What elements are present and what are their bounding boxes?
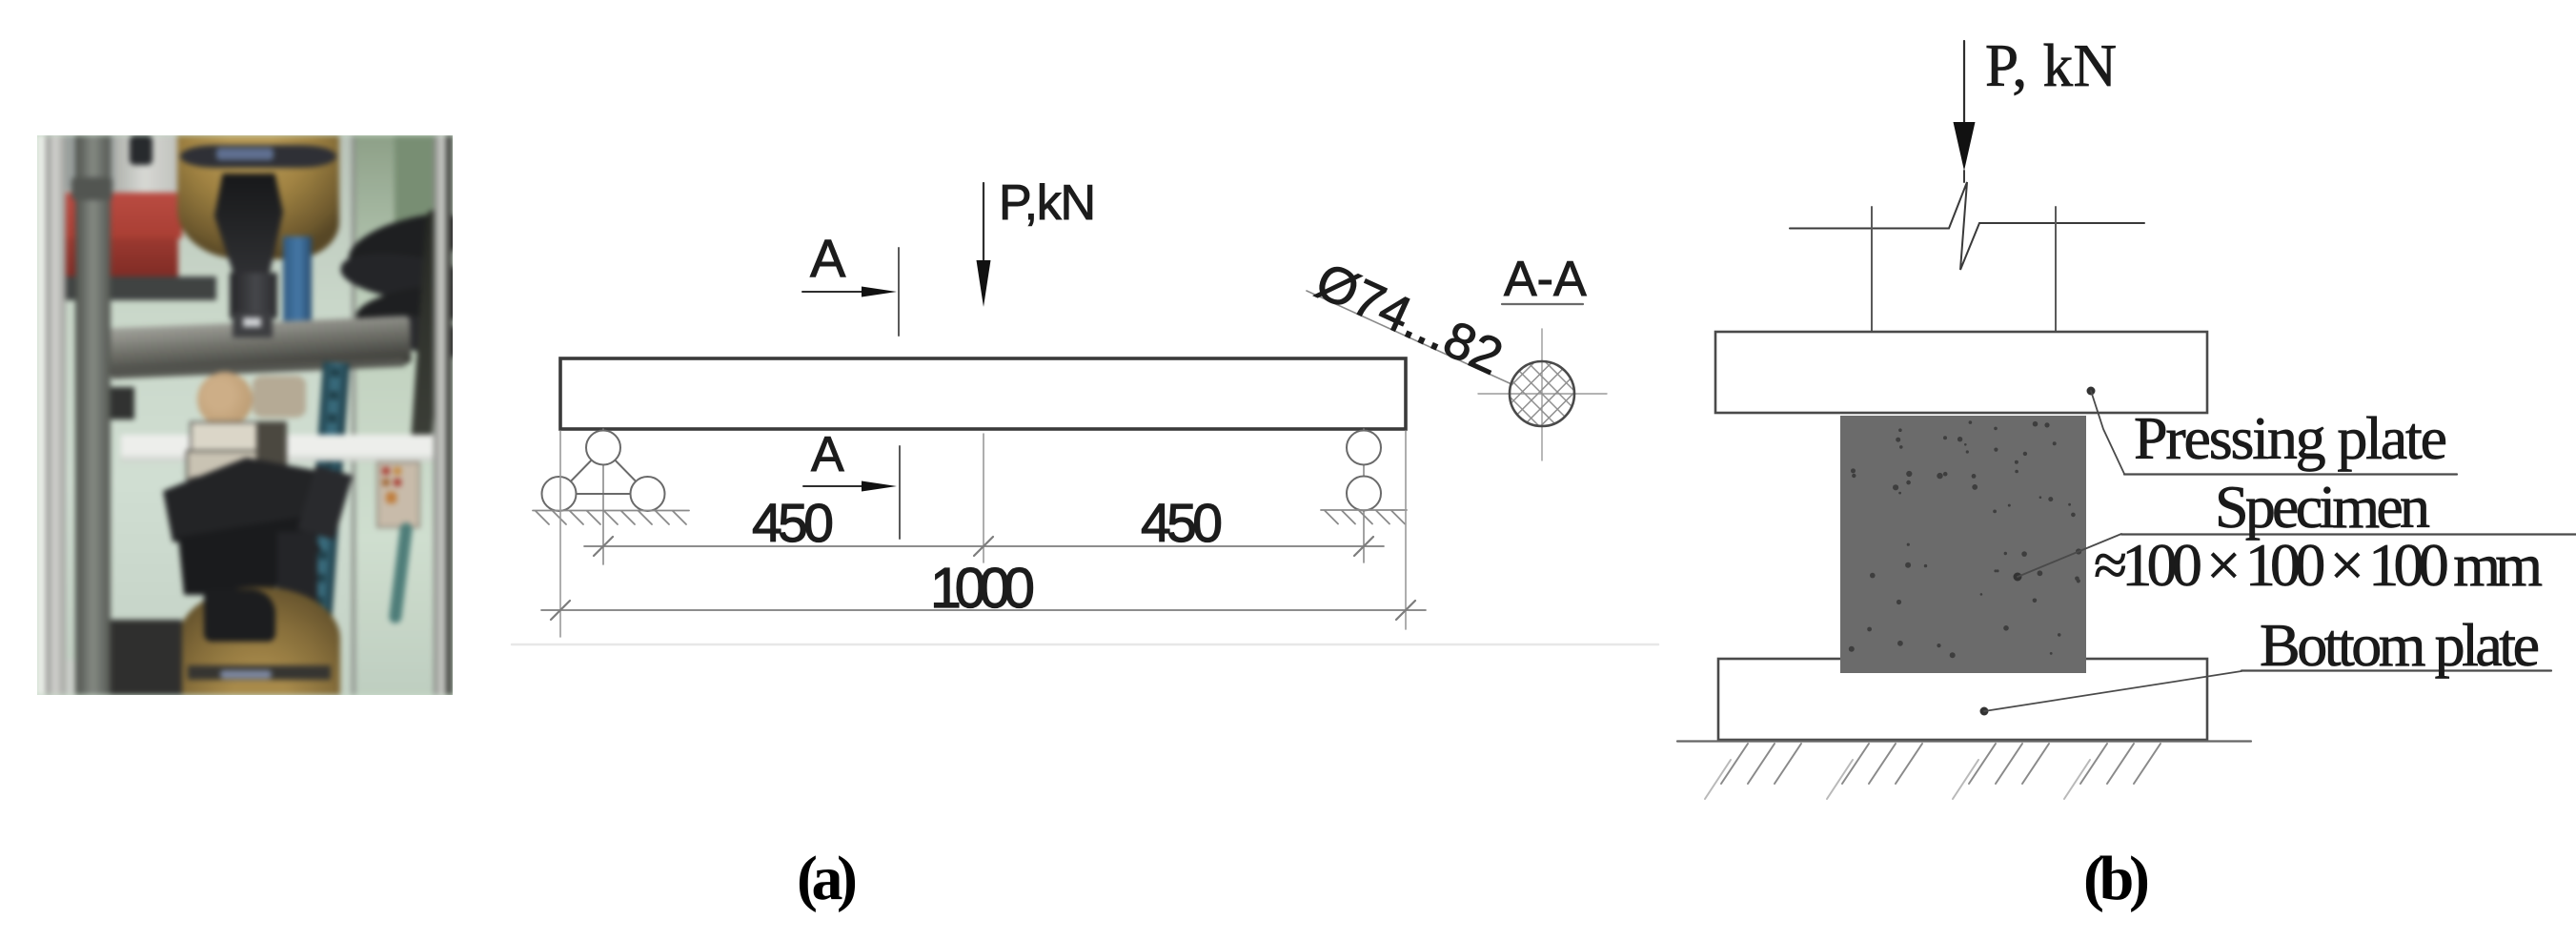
right support roller centerline [1363,429,1365,562]
faint rule under diagram a [512,644,1658,646]
piston column left edge [1871,207,1873,332]
break symbol (piston rod break) [1949,171,1979,270]
section A-A circle crosshair [1478,329,1607,460]
load arrow P [977,183,991,307]
right ground hatch [1321,510,1407,524]
section line A upper [898,248,900,336]
left extension line (beam end) [559,431,561,637]
section A-A circle (log cross-section, cross-hatched) [1446,301,1631,486]
section arrow upper [802,287,897,297]
svg-text:(b): (b) [2083,844,2150,913]
right extension line (beam end) [1405,431,1407,629]
dimension line 1000 [541,601,1426,620]
svg-text:Pressing plate: Pressing plate [2134,404,2447,472]
section arrow lower [803,481,897,492]
break horizontal left [1790,228,1949,230]
specimen label rule [2121,533,2576,535]
left support pinned (triangle of rollers) [542,431,665,512]
svg-text:Bottom plate: Bottom plate [2260,611,2540,679]
leader bottom plate [1980,671,2242,716]
svg-text:450: 450 [1141,493,1223,554]
ground hatch (b) [1721,744,2160,784]
load line P (b) [1954,41,1976,171]
svg-text:450: 450 [752,493,834,554]
section line A lower [899,446,901,539]
dimension line 450+450 [584,537,1384,556]
svg-text:A: A [811,427,844,482]
svg-text:≈100 × 100 × 100 mm: ≈100 × 100 × 100 mm [2094,531,2543,599]
left ground hatch [533,511,689,525]
svg-text:A-A: A-A [1504,252,1587,307]
svg-text:1000: 1000 [930,557,1035,620]
piston column right edge [2055,207,2057,332]
beam specimen (log under test) [560,358,1406,429]
svg-text:P, kN: P, kN [1985,32,2117,99]
leader line for diameter [1307,291,1510,383]
pressing plate label rule [2124,473,2457,475]
svg-text:A: A [810,228,846,288]
leader specimen [2014,534,2122,582]
svg-text:(a): (a) [797,844,858,913]
break horizontal right [1979,222,2144,224]
label A-A [1502,252,1587,307]
bottom plate [1718,659,2207,740]
ground line (b) [1677,740,2251,742]
bottom plate label rule [2241,669,2551,671]
svg-text:P,kN: P,kN [999,175,1096,231]
pressing plate [1715,332,2207,413]
photo: universal testing machine with wood specimen [37,135,453,695]
center extension line [983,434,984,562]
left support centerline [602,429,604,564]
concrete specimen cube [1840,416,2086,673]
leader pressing plate [2087,387,2125,475]
right support rollers [1347,431,1381,511]
